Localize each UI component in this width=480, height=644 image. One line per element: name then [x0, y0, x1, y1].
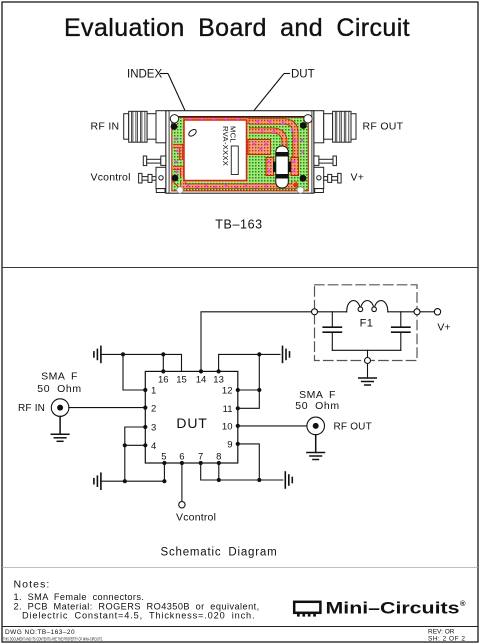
capacitor C1 lead bottom — [331, 332, 333, 350]
svg-text:REV: OR: REV: OR — [428, 629, 455, 636]
capacitor C1 plates — [323, 327, 341, 332]
capacitor C2 lead top — [400, 312, 402, 327]
svg-text:V+: V+ — [351, 171, 365, 183]
wire F1 ground stem — [367, 364, 369, 379]
mounting hole top-right — [304, 115, 312, 123]
trace stubs left edge — [173, 146, 181, 160]
board inner edge lines — [168, 111, 170, 194]
svg-text:F1: F1 — [360, 318, 374, 330]
wire pin13 to right ground — [219, 354, 280, 371]
svg-text:2: 2 — [151, 404, 156, 415]
capacitor C2 lead bottom — [400, 332, 402, 350]
ground upper-left (rotated) — [94, 346, 101, 362]
wire F1 bottom stub — [367, 350, 369, 357]
capacitor C1 lead top — [331, 312, 333, 327]
wire F1 left — [318, 311, 347, 313]
wire F1 right — [388, 311, 414, 313]
svg-text:DWG NO:TB–163–20: DWG NO:TB–163–20 — [5, 629, 75, 636]
DUT leader dash — [284, 73, 290, 75]
wire pin6 to Vcontrol — [181, 463, 183, 502]
RF OUT SMA connector — [314, 111, 356, 143]
svg-text:Vcontrol: Vcontrol — [91, 171, 131, 183]
INDEX leader line — [168, 74, 193, 129]
ground under F1 — [359, 378, 377, 385]
wire pin7 route — [201, 463, 283, 480]
svg-text:10: 10 — [222, 422, 233, 433]
svg-text:4: 4 — [151, 441, 156, 452]
ground lower-left (rotated) — [94, 473, 101, 489]
svg-text:RVA-XXXX: RVA-XXXX — [221, 126, 230, 166]
wire pin10 to RF OUT — [238, 425, 307, 427]
PCB top dark border — [172, 116, 308, 118]
header pin upper-left — [143, 156, 166, 166]
svg-text:TB–163: TB–163 — [215, 218, 262, 232]
capacitor C2 plates — [392, 327, 410, 332]
F1 right node — [414, 309, 420, 315]
svg-text:3: 3 — [151, 423, 156, 434]
svg-text:Vcontrol: Vcontrol — [176, 512, 216, 524]
filter F1 dashed box — [315, 285, 418, 361]
svg-text:INDEX: INDEX — [127, 69, 162, 81]
junction dots — [121, 352, 262, 483]
svg-text:Notes:: Notes: — [14, 579, 51, 591]
svg-text:13: 13 — [213, 375, 224, 386]
corner screw bottom-left — [172, 175, 179, 182]
Vcontrol pin connector — [139, 167, 166, 192]
corner notch holes — [177, 187, 183, 193]
svg-text:12: 12 — [222, 386, 233, 397]
svg-text:V+: V+ — [437, 322, 450, 334]
svg-text:SH: 2 OF 2: SH: 2 OF 2 — [428, 636, 466, 643]
corner screw top-right — [300, 122, 307, 129]
wire pin8 stub — [218, 463, 220, 480]
wire pin16 stub — [162, 354, 164, 371]
svg-text:5: 5 — [161, 452, 166, 463]
DUT box — [145, 371, 238, 463]
wire pin11 route — [238, 354, 259, 408]
wire pin2 to RF IN — [69, 407, 146, 409]
wire pin5 stub — [163, 463, 165, 481]
index marker oval — [188, 128, 198, 137]
wire F1 bottom — [332, 349, 401, 351]
wire pin9 route — [238, 444, 259, 480]
svg-text:SMA F: SMA F — [41, 371, 78, 383]
header pin upper-right — [314, 156, 337, 166]
svg-text:7: 7 — [198, 452, 203, 463]
svg-text:®: ® — [460, 599, 466, 608]
Vcontrol terminal — [179, 502, 185, 508]
corner screw top-left — [171, 123, 178, 130]
corner chamfer trace bottom-left — [173, 181, 183, 191]
label blank box — [231, 146, 238, 175]
Mini-Circuits logo icon — [294, 602, 320, 617]
svg-text:Evaluation Board and Circuit: Evaluation Board and Circuit — [64, 14, 410, 42]
svg-text:THIS DOCUMENT AND ITS CONTENTS: THIS DOCUMENT AND ITS CONTENTS ARE THE P… — [3, 636, 103, 641]
wire pin3 route — [125, 427, 146, 481]
svg-text:15: 15 — [176, 375, 187, 386]
svg-text:RF OUT: RF OUT — [363, 120, 404, 132]
svg-text:50 Ohm: 50 Ohm — [37, 383, 81, 395]
svg-text:Schematic Diagram: Schematic Diagram — [161, 546, 278, 558]
trace band bottom run — [183, 182, 294, 187]
svg-text:11: 11 — [223, 404, 233, 415]
svg-text:50 Ohm: 50 Ohm — [295, 400, 339, 412]
board body outline — [166, 111, 314, 194]
DUT leader line — [250, 74, 284, 116]
svg-text:Mini–Circuits: Mini–Circuits — [326, 599, 460, 618]
mounting hole top-left — [170, 115, 178, 123]
wire to V+ — [420, 311, 434, 313]
footer divider line — [2, 626, 478, 628]
inductor L1 — [347, 301, 388, 312]
svg-text:8: 8 — [216, 452, 221, 463]
svg-text:RF IN: RF IN — [91, 120, 120, 132]
F1 bottom node — [365, 358, 371, 364]
red cross marker — [293, 183, 298, 188]
wire pin12 route — [238, 389, 259, 391]
RF OUT connector SMA — [307, 417, 325, 435]
wire pin14 to F1 — [201, 312, 311, 372]
svg-text:6: 6 — [179, 452, 184, 463]
white label on PCB — [184, 120, 247, 181]
component black pad right — [287, 162, 291, 173]
ground upper-right (rotated) — [283, 346, 290, 362]
component pads red right — [291, 158, 299, 176]
svg-text:1. SMA Female connectors.: 1. SMA Female connectors. — [14, 592, 145, 602]
coupling component body — [276, 146, 289, 188]
F1 left node — [312, 309, 318, 315]
ground under RF IN — [51, 416, 69, 441]
component black pad left — [273, 162, 277, 173]
svg-text:16: 16 — [158, 375, 169, 386]
svg-text:Dielectric Constant=4.5, Thick: Dielectric Constant=4.5, Thickness=.020 … — [22, 611, 255, 621]
svg-text:DUT: DUT — [176, 415, 207, 431]
trace band along label top — [184, 118, 249, 124]
pad field right of label — [248, 140, 271, 155]
component pads red left — [266, 158, 274, 176]
wire top ground bus — [101, 354, 182, 371]
PCB ground plane — [172, 117, 308, 191]
V+ pin connector — [314, 167, 341, 192]
trace band inner arc — [249, 131, 285, 155]
wire pin4 route — [125, 444, 146, 446]
section divider line (board/schematic) — [2, 267, 478, 269]
svg-text:9: 9 — [227, 440, 232, 451]
RF IN connector SMA — [51, 399, 69, 417]
ground under RF OUT — [307, 435, 325, 460]
trace band top arc — [249, 122, 296, 158]
magenta vias — [175, 118, 305, 189]
section divider line (schematic/notes) — [2, 567, 478, 569]
RF IN SMA connector — [124, 111, 166, 143]
svg-text:1: 1 — [151, 386, 156, 397]
wire pin1 route — [123, 354, 145, 390]
svg-text:RF OUT: RF OUT — [334, 421, 372, 432]
corner screw bottom-right — [300, 175, 307, 182]
V+ terminal — [434, 309, 440, 315]
svg-text:14: 14 — [196, 375, 207, 386]
INDEX leader dash — [160, 73, 168, 75]
svg-text:RF IN: RF IN — [18, 403, 45, 414]
ground lower-right (rotated) — [285, 472, 292, 488]
svg-text:DUT: DUT — [291, 69, 315, 81]
wire lower-left ground line — [101, 480, 165, 482]
